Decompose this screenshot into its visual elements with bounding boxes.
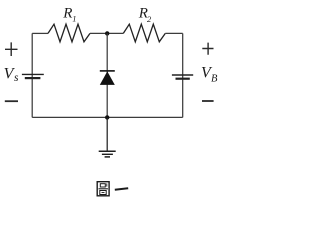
diode D1 cathode bar — [100, 70, 115, 72]
wire right branch — [182, 33, 184, 117]
plus sign left — [5, 42, 18, 56]
svg-text:R: R — [62, 5, 72, 21]
wire bottom — [32, 116, 183, 118]
ground symbol — [99, 151, 116, 157]
resistor R1 — [48, 24, 90, 42]
node top junction dot — [105, 31, 109, 35]
battery VB short plate — [176, 78, 190, 80]
plus sign right — [202, 43, 213, 55]
wire left branch — [31, 33, 33, 117]
ground stem wire — [106, 117, 108, 151]
battery VS short plate — [25, 77, 41, 79]
minus sign left — [5, 100, 18, 102]
minus sign right — [202, 100, 214, 102]
svg-text:2: 2 — [147, 14, 152, 24]
wire top-right segment — [165, 32, 182, 34]
caption character TU (figure) — [97, 182, 109, 196]
svg-text:B: B — [211, 74, 218, 85]
node bottom junction dot — [105, 115, 109, 119]
caption character YI (one) — [115, 188, 128, 190]
wire middle branch — [106, 33, 108, 117]
battery VS long plate — [22, 73, 44, 75]
diode D1 triangle — [100, 71, 115, 85]
svg-text:s: s — [14, 72, 19, 84]
battery VB long plate — [172, 74, 193, 76]
resistor R2 — [123, 24, 165, 42]
svg-text:1: 1 — [72, 14, 76, 24]
wire top-left segment — [32, 32, 48, 34]
wire top-middle segment — [90, 32, 123, 34]
